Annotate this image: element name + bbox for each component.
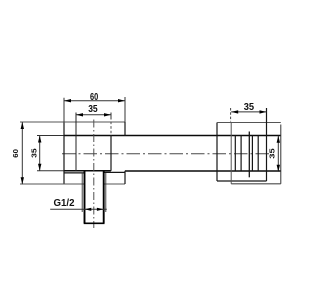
svg-text:G1/2: G1/2 <box>54 197 75 209</box>
dimension 35 right top: hidden extension line left <box>230 108 232 122</box>
dimension 35 top: left arrowhead <box>76 113 83 116</box>
stub thread outer right line <box>105 173 107 212</box>
flange rect A left edge <box>216 123 218 182</box>
dimension 35 right side: top arrowhead <box>277 136 280 143</box>
dimension 35 right top: right arrowhead <box>260 110 267 113</box>
svg-text:60: 60 <box>13 149 20 158</box>
dimension 60 left: bottom arrowhead <box>21 177 24 184</box>
escutcheon square top edge <box>20 121 125 123</box>
svg-text:35: 35 <box>244 101 255 113</box>
dimension 60 top: extension line left <box>63 98 65 122</box>
node vertical centerline of stub <box>93 120 95 229</box>
svg-text:35: 35 <box>88 103 98 115</box>
flange rect A top edge <box>217 122 281 124</box>
svg-text:35: 35 <box>31 148 38 158</box>
stub thread left wall <box>84 171 86 223</box>
dimension 35 right side: bottom arrowhead <box>277 165 280 172</box>
thread ridge line 4 <box>257 136 259 171</box>
dimension G1/2: left arrowhead <box>85 208 92 211</box>
tube square left edge <box>75 113 77 171</box>
escutcheon inner bottom edge right of stub <box>104 171 124 173</box>
dimension 35 left: bottom arrowhead <box>38 164 41 171</box>
thread ridge line 3 <box>251 136 253 171</box>
dimension 35 left: top arrowhead <box>38 136 41 143</box>
thread ridge line 2 <box>240 136 242 171</box>
dimension 60 top: right arrowhead <box>118 99 125 102</box>
flange rect B right edge <box>280 125 282 184</box>
escutcheon square left edge <box>63 122 65 184</box>
wire tube bottom edge right segment <box>125 170 281 172</box>
dimension 60 top: left arrowhead <box>64 99 71 102</box>
thread ridge line 1 <box>234 136 236 171</box>
flange mid vertical line <box>248 132 250 178</box>
wire tube top edge extension to dim <box>37 135 64 137</box>
flange rect A right edge with extension up <box>266 108 268 181</box>
wire tube top edge <box>64 135 281 137</box>
tube square right edge hidden extension <box>110 113 112 120</box>
dimension 35 top: right arrowhead <box>104 113 111 116</box>
dimension 35 right top: left arrowhead <box>231 110 238 113</box>
escutcheon square right edge lower segment <box>124 171 126 184</box>
wire tube bottom edge extension to dim <box>37 170 64 172</box>
escutcheon inner bottom edge left of stub <box>64 172 84 174</box>
dimension 60 top: dimension line <box>64 100 125 102</box>
stub bottom edge <box>84 222 105 224</box>
escutcheon square bottom edge left segment <box>20 183 84 185</box>
flange rect B bottom edge <box>231 183 281 185</box>
node horizontal centerline <box>62 153 270 155</box>
flange rect A bottom edge <box>217 180 267 182</box>
flange rect B left edge <box>230 123 232 184</box>
svg-text:60: 60 <box>90 91 98 103</box>
dimension 60 left: top arrowhead <box>21 122 24 129</box>
dimension 35 right top: dimension line <box>231 111 266 113</box>
dimension 60 top: extension line right <box>124 97 126 122</box>
dimension 35 left: dimension line <box>39 136 41 171</box>
dimension 35 top: dimension line <box>76 114 111 116</box>
dimension 35 right side: dimension line <box>277 136 279 172</box>
stub thread outer left line <box>81 173 83 212</box>
tube square right edge hidden extension dashes <box>110 122 112 136</box>
dimension 60 left: dimension line <box>21 122 23 184</box>
dimension G1/2: right arrowhead <box>97 208 104 211</box>
dimension G1/2: leader and dimension line <box>50 208 107 210</box>
svg-text:35: 35 <box>269 148 276 159</box>
wire tube bottom edge left segment <box>64 170 111 172</box>
tube square right edge <box>110 136 112 171</box>
stub thread right wall <box>103 171 105 223</box>
escutcheon square right edge upper segment <box>124 122 126 136</box>
escutcheon square bottom edge right segment <box>104 183 125 185</box>
